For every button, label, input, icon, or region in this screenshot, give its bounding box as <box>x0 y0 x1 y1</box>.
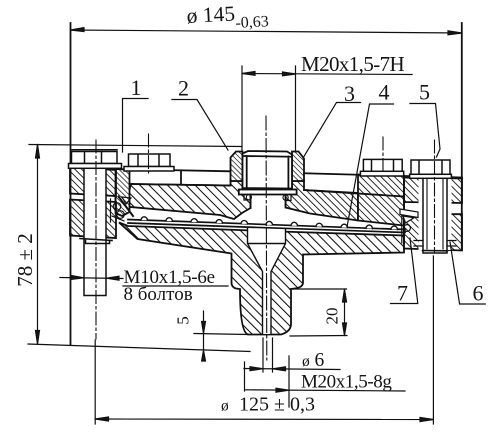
svg-text:20: 20 <box>323 308 342 325</box>
right flange upper ring <box>404 178 462 204</box>
upper flange plate left wedge (sectioned, hatched) <box>125 181 251 219</box>
bolt B hex head <box>124 154 174 171</box>
dimension M10 arrows at bolt A shank <box>60 276 123 281</box>
dimension d125 bottom <box>95 256 433 424</box>
svg-text:125 ± 0,3: 125 ± 0,3 <box>239 394 315 416</box>
svg-text:5: 5 <box>419 80 430 105</box>
hole below plug <box>251 195 286 209</box>
lower body (sectioned, hatched) <box>119 223 404 335</box>
bolt A hex head <box>69 150 122 169</box>
svg-text:7: 7 <box>397 281 408 306</box>
leader item 1 <box>123 99 149 153</box>
stud hole white strips <box>419 179 452 250</box>
svg-text:M20x1,5-7H: M20x1,5-7H <box>301 52 405 76</box>
dimension d145 top: line with arrows <box>71 28 462 35</box>
step line at bolt B hole <box>180 172 182 184</box>
top surface line of upper plate <box>116 169 463 178</box>
main vertical centerline <box>265 116 268 360</box>
svg-text:2: 2 <box>178 76 189 101</box>
leader item 7 <box>391 238 418 304</box>
membrane right edge clamp <box>400 209 418 243</box>
plate block under bolt 5 head (dense hatch) <box>358 175 404 226</box>
svg-text:5: 5 <box>174 316 193 325</box>
svg-text:6: 6 <box>315 350 325 371</box>
svg-text:6: 6 <box>473 281 484 306</box>
membrane left seal cluster <box>111 197 132 222</box>
membrane (corrugated diaphragm) <box>128 217 405 233</box>
funnel outline <box>248 228 286 334</box>
dimension 20 at stem right <box>290 289 348 336</box>
dimension M20x1,5-7H: extension lines and leader <box>242 66 412 152</box>
svg-text:ø: ø <box>221 398 229 415</box>
svg-text:4: 4 <box>379 80 390 105</box>
left flange upper ring <box>70 168 116 197</box>
bolt C hex head <box>360 159 403 176</box>
centerline bolt A <box>95 140 97 339</box>
centerline bolt B <box>148 134 150 173</box>
svg-text:M20x1,5-8g: M20x1,5-8g <box>301 372 392 393</box>
underline M10 text <box>123 285 228 287</box>
bolt A shank hole (white) through left rings <box>84 166 106 296</box>
right ring inner boundary <box>403 178 405 244</box>
left flange lower ring <box>70 200 116 239</box>
plug sealing washer with retainer clips <box>239 190 297 201</box>
centerline bolt C <box>382 137 384 172</box>
rim bevel line <box>119 197 134 217</box>
leader item 2 <box>172 100 228 151</box>
leader item 6 <box>450 242 485 304</box>
stud 6 body <box>414 179 456 254</box>
flange outer left edge + ext <box>70 23 72 345</box>
central boss left wall <box>231 152 243 182</box>
leader item 4 <box>347 104 394 227</box>
leader item 3 <box>303 103 361 159</box>
leader item 5 <box>410 104 440 158</box>
centerline stud D <box>434 140 436 253</box>
svg-text:78 ± 2: 78 ± 2 <box>13 233 37 287</box>
white band lower edge lines <box>131 184 404 197</box>
upper plate left edge <box>115 169 117 213</box>
central boss right wall <box>292 152 304 182</box>
bolt D (stud nut) hex head <box>410 160 452 178</box>
bottom washer under left rings <box>80 239 112 244</box>
dimension 5 at stem tip <box>194 311 248 361</box>
bolt A shank outline <box>84 166 106 296</box>
upper flange plate right wedge (sectioned, hatched) <box>286 181 358 221</box>
svg-text:ø: ø <box>302 353 310 370</box>
svg-text:1: 1 <box>131 75 142 100</box>
upper plate left rim strip <box>116 169 130 216</box>
central threaded plug M20 <box>243 151 293 189</box>
flange outer right edge + ext <box>461 23 463 250</box>
svg-text:3: 3 <box>344 81 355 106</box>
dimension 78+-2: vertical line with arrows <box>28 145 250 352</box>
center recess, funnel and bore (white) <box>248 228 286 334</box>
right flange lower ring <box>404 214 462 251</box>
leader M20x1,5-8g <box>245 356 406 407</box>
svg-text:8 болтов: 8 болтов <box>124 284 193 305</box>
dimension d6 bore <box>244 338 340 372</box>
